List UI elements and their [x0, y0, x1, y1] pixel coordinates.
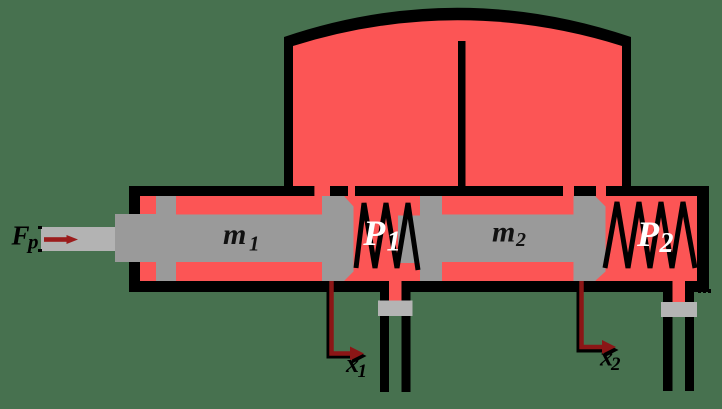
- piston 2 facet: [595, 196, 606, 281]
- rod corner tick top: [38, 226, 42, 229]
- svg-text:1: 1: [358, 361, 368, 382]
- force Fp arrow: [44, 235, 78, 244]
- x1 marker: [332, 281, 351, 354]
- bottom wall segment 2: [401, 281, 673, 292]
- x1 marker shadow: [329, 292, 352, 356]
- top wall cap over piston 1: [330, 186, 348, 196]
- piston 1 disc: [322, 196, 345, 281]
- dome chamber outer wall: [284, 8, 631, 196]
- piston disc A: [156, 196, 176, 281]
- pipe 1 right bar: [402, 292, 411, 392]
- cylinder interior: [140, 196, 697, 281]
- dome divider wall: [458, 41, 466, 196]
- pipe 2 right bar: [685, 292, 694, 391]
- x2 marker shadow: [579, 292, 604, 350]
- rod flange: [115, 214, 156, 262]
- top wall cap over piston 2: [574, 186, 596, 196]
- pipe 2 collar: [661, 302, 697, 317]
- svg-text:m: m: [223, 218, 246, 251]
- cylinder right wall: [697, 186, 709, 292]
- svg-text:2: 2: [515, 229, 526, 251]
- port channel 2: [673, 281, 686, 302]
- cylinder left wall: [129, 186, 140, 292]
- input rod: [41, 227, 115, 251]
- top wall segment 2: [355, 186, 563, 196]
- mass m1 bar: [176, 215, 322, 263]
- bottom wall segment 1: [129, 281, 391, 292]
- svg-text:F: F: [11, 221, 30, 251]
- top wall segment 1: [129, 186, 314, 196]
- dome chamber interior: [293, 20, 622, 196]
- rod corner tick bottom: [38, 249, 42, 252]
- pipe 1 collar: [378, 301, 413, 317]
- corner serration dots: [698, 289, 701, 293]
- pipe 1 left bar: [380, 292, 389, 392]
- mass m2 disc: [420, 196, 442, 281]
- spring P1: [356, 203, 418, 270]
- port channel 1: [389, 281, 402, 301]
- svg-text:m: m: [492, 216, 515, 249]
- x2 marker: [582, 281, 603, 347]
- piston 1 facet: [344, 196, 354, 281]
- top wall segment 3: [606, 186, 709, 196]
- svg-text:1: 1: [249, 232, 260, 256]
- bottom wall segment 3: [685, 281, 709, 292]
- mass m2 rod: [398, 216, 420, 264]
- svg-text:2: 2: [659, 228, 674, 259]
- mass m2 bar: [442, 215, 574, 263]
- spring P2: [605, 202, 695, 268]
- svg-text:2: 2: [610, 354, 621, 375]
- svg-text:P: P: [636, 214, 660, 254]
- piston 2 disc: [574, 196, 596, 281]
- svg-text:P: P: [362, 213, 386, 253]
- pipe 2 left bar: [663, 292, 673, 391]
- svg-text:1: 1: [387, 226, 402, 258]
- svg-text:p: p: [26, 230, 39, 254]
